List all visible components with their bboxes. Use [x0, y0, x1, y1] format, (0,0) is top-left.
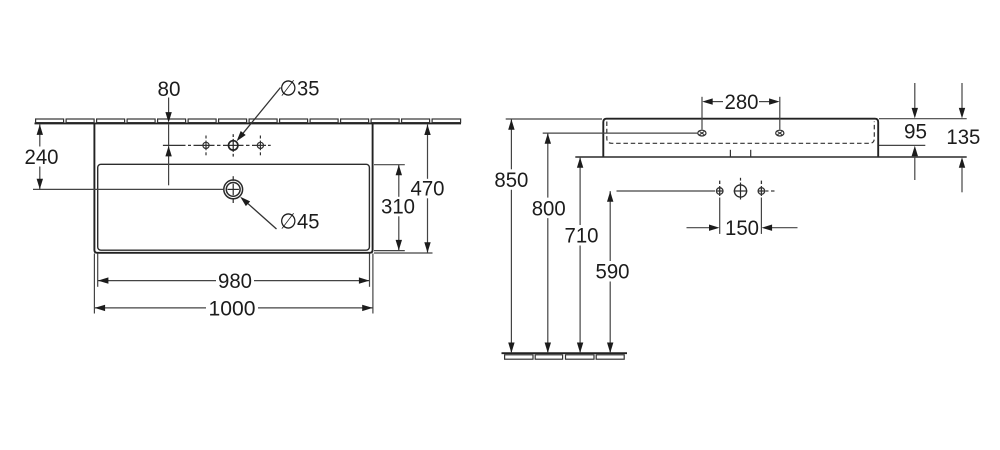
dimension 150 extension lines [720, 198, 762, 234]
extension line 95 bottom [879, 144, 925, 146]
dimension 135 [961, 83, 963, 192]
svg-text:470: 470 [411, 177, 445, 201]
dimension 590 [609, 191, 611, 353]
svg-text:1000: 1000 [209, 296, 256, 320]
dimension 95 [914, 83, 916, 180]
basin inner bowl outline (plan) [98, 164, 370, 250]
leader D35 [239, 88, 281, 139]
drain hole (D45) [224, 176, 243, 203]
centre tap hole (D35) [229, 134, 238, 156]
dimension 80 [168, 98, 170, 186]
dimension 280 [712, 101, 770, 103]
left tap hole [203, 136, 209, 156]
inner bowl dashed profile [607, 122, 875, 144]
svg-text:280: 280 [725, 90, 759, 114]
drain marks at bottom [730, 150, 750, 157]
faucet dash-dot centerline [163, 144, 271, 146]
svg-text:710: 710 [565, 224, 599, 248]
svg-text:150: 150 [725, 216, 759, 240]
dimension 800 [547, 133, 549, 353]
svg-text:240: 240 [25, 145, 59, 169]
fixing hole centre [734, 178, 748, 200]
svg-text:∅35: ∅35 [280, 77, 320, 101]
svg-text:135: 135 [946, 125, 980, 149]
dimension 150 [687, 227, 798, 229]
dimension 980 [98, 280, 369, 282]
basin bottom line with extensions [575, 156, 966, 158]
dimension 1000 [95, 307, 373, 309]
basin front outline [603, 119, 878, 157]
leader D45 [242, 198, 277, 229]
dimension 470 [427, 124, 429, 253]
floor line [502, 352, 628, 354]
basin outer outline (plan) [94, 123, 372, 252]
svg-text:∅45: ∅45 [280, 210, 320, 234]
svg-text:800: 800 [532, 196, 566, 220]
extension line 850 [506, 118, 602, 120]
svg-text:850: 850 [494, 168, 528, 192]
fixing hole right [758, 181, 765, 196]
extension line for 470 bottom (outer bottom extended) [374, 252, 433, 254]
dimension 240 reference line to drain [33, 188, 224, 190]
right tap hole [257, 136, 263, 156]
extension line top right [879, 118, 967, 120]
fixing hole left [716, 181, 723, 196]
dimension 850 [510, 119, 512, 353]
dimension 280 extension lines [702, 97, 780, 130]
fixing holes centerline [617, 190, 716, 192]
extension line 800 [543, 132, 698, 134]
svg-text:80: 80 [158, 77, 181, 101]
svg-text:590: 590 [596, 260, 630, 284]
overflow hole right [776, 130, 784, 136]
wall hatch tiles [36, 119, 461, 123]
extension line for 310 top [374, 164, 405, 166]
wall line [35, 122, 462, 124]
floor hatch tiles [505, 355, 625, 359]
extension line for 310 bottom (inner bowl bottom extended) [374, 250, 405, 252]
dimension 710 [579, 157, 581, 353]
overflow hole left [698, 130, 706, 136]
dimension 240 [39, 124, 41, 189]
svg-text:980: 980 [218, 269, 252, 293]
extension lines below basin [94, 254, 373, 314]
dimension 310 [398, 165, 400, 251]
svg-text:95: 95 [904, 120, 927, 144]
